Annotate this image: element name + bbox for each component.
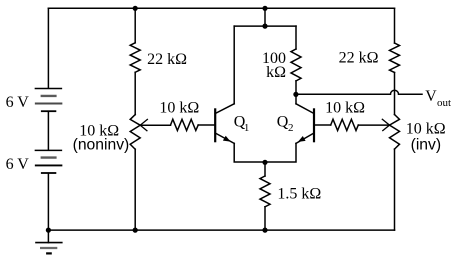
svg-text:V: V (425, 88, 437, 105)
node bottom 1.5k (262, 228, 267, 233)
svg-text:Q: Q (277, 114, 289, 131)
svg-text:10 kΩ: 10 kΩ (406, 121, 446, 138)
battery B1 6V (35, 89, 61, 112)
svg-text:10 kΩ: 10 kΩ (325, 100, 365, 117)
resistor 10k right horizontal (331, 119, 359, 130)
node Vout tap (293, 92, 298, 97)
wire 10k to wiper (358, 124, 388, 126)
resistor 10k left horizontal (171, 119, 199, 130)
transistor Q2 (296, 104, 314, 144)
wire battery to bottom rail (47, 174, 49, 230)
ground (36, 230, 62, 253)
svg-text:22 kΩ: 22 kΩ (339, 50, 379, 67)
svg-text:(noninv): (noninv) (73, 136, 130, 153)
node bottom ground (46, 228, 51, 233)
resistor 22k left (130, 43, 140, 73)
wire emitter node to 1.5k (264, 162, 266, 176)
svg-text:10 kΩ: 10 kΩ (159, 100, 199, 117)
node common emitter (262, 160, 267, 165)
wire bridge (234, 25, 296, 27)
wire pot bottom (134, 149, 136, 230)
node top left 22k (133, 6, 138, 11)
resistor 1.5k (260, 176, 270, 207)
wire left supply top (47, 8, 49, 87)
wire bridge to 100k (295, 26, 297, 49)
wire 22k to pot right (394, 73, 396, 115)
wire top center drop (264, 8, 266, 26)
battery B2 6V (35, 150, 61, 173)
wire Q2 emitter down (265, 143, 296, 162)
svg-text:out: out (437, 97, 451, 109)
svg-text:22 kΩ: 22 kΩ (147, 51, 187, 68)
svg-text:2: 2 (288, 122, 294, 134)
wire 22k to pot (134, 72, 136, 114)
node bridge T (262, 24, 267, 29)
wire Vout with hop (296, 90, 422, 94)
wire Q1 collector up (233, 26, 235, 104)
wire bottom rail (48, 229, 394, 231)
node bottom left pot (133, 228, 138, 233)
wire 10k to Q1 base (198, 124, 214, 126)
svg-text:6 V: 6 V (6, 94, 30, 111)
wire between batteries (47, 112, 49, 150)
potentiometer 10k noninv (130, 115, 140, 150)
wire right column top (394, 8, 396, 43)
svg-text:1.5 kΩ: 1.5 kΩ (277, 185, 321, 202)
resistor 22k right (390, 43, 400, 73)
wire Q2 base to 10k (314, 124, 331, 126)
wiper arrow right pot (382, 119, 389, 130)
svg-text:(inv): (inv) (411, 137, 442, 154)
wire Q1 emitter down (234, 143, 265, 162)
wire wiper to 10k (141, 124, 171, 126)
resistor 100k (291, 49, 301, 81)
svg-text:kΩ: kΩ (266, 64, 286, 81)
transistor Q1 (215, 104, 234, 144)
potentiometer 10k inv (390, 115, 400, 150)
node top center (262, 6, 267, 11)
wire 100k to Q2 collector (295, 81, 297, 104)
wire 1.5k to bottom rail (264, 207, 266, 230)
wire pot right bottom (394, 149, 396, 230)
wiper arrow left pot (140, 119, 147, 130)
wire top rail (48, 7, 394, 9)
svg-text:1: 1 (244, 122, 250, 134)
svg-text:6 V: 6 V (6, 156, 30, 173)
wire left column top (134, 8, 136, 43)
